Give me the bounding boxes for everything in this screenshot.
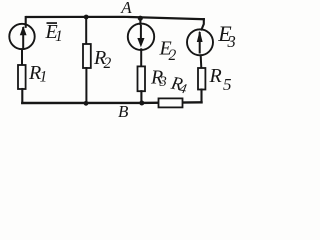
svg-text:3: 3 xyxy=(227,32,236,51)
resistor R1 xyxy=(18,65,26,89)
junction dot B-R2 xyxy=(84,101,89,106)
junction dot A-E2 xyxy=(138,16,143,21)
wire: top rail (node A) xyxy=(27,17,204,19)
wire: E1 to R1 xyxy=(21,49,23,65)
wire: R5 to bottom rail xyxy=(200,90,202,103)
resistor R5 xyxy=(198,68,205,90)
svg-text:B: B xyxy=(118,102,129,120)
svg-text:2: 2 xyxy=(169,47,177,64)
wire: R2 branch top xyxy=(85,17,87,44)
wire: R3 to bottom rail xyxy=(140,91,142,103)
source E2 xyxy=(128,24,154,50)
resistor R3 xyxy=(138,66,146,91)
label R4 xyxy=(168,73,189,97)
label E1 xyxy=(45,21,63,45)
junction dot B-R3 xyxy=(139,101,144,106)
wire: E3 branch top stub xyxy=(202,19,204,30)
label R3 xyxy=(150,67,167,91)
svg-text:4: 4 xyxy=(178,81,188,97)
svg-text:3: 3 xyxy=(159,74,167,90)
label R2 xyxy=(93,47,112,72)
wire: E1 branch top stub xyxy=(25,17,27,27)
wire: E3 to R5 xyxy=(200,55,203,68)
junction dot A-R2 xyxy=(84,15,89,20)
svg-text:1: 1 xyxy=(40,69,48,86)
wire: E2 to R3 xyxy=(140,49,142,66)
source E3 xyxy=(187,29,213,55)
arrow of E2 (down) xyxy=(137,25,144,47)
resistor R2 xyxy=(83,44,91,68)
arrow of E1 (up) xyxy=(20,26,27,49)
svg-text:5: 5 xyxy=(223,75,232,94)
arrow of E3 (up) xyxy=(197,31,203,54)
wire: bottom rail (node B) xyxy=(22,101,201,104)
svg-text:R: R xyxy=(209,65,222,87)
svg-text:1: 1 xyxy=(55,28,63,45)
svg-text:A: A xyxy=(120,0,132,17)
label E3 xyxy=(217,21,235,51)
source E1 xyxy=(9,24,34,49)
svg-text:2: 2 xyxy=(104,55,112,72)
wire: R1 to bottom rail xyxy=(21,89,23,103)
wire: E2 branch top stub xyxy=(139,18,141,24)
label E2 xyxy=(159,38,177,65)
wire: R2 branch bottom xyxy=(85,68,87,103)
label R1 xyxy=(28,62,47,86)
resistor R4 xyxy=(159,98,183,107)
label R5 xyxy=(209,65,232,94)
